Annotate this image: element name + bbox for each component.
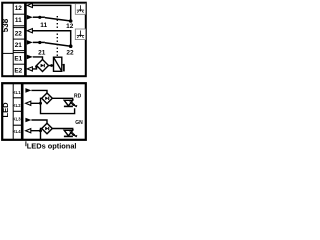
svg-text:12: 12 bbox=[66, 23, 74, 30]
svg-text:11: 11 bbox=[40, 22, 47, 29]
svg-text:22: 22 bbox=[66, 50, 74, 57]
svg-text:KL1: KL1 bbox=[13, 90, 22, 95]
svg-text:RD: RD bbox=[74, 93, 82, 99]
svg-text:21: 21 bbox=[15, 42, 23, 49]
svg-text:GN: GN bbox=[75, 120, 83, 126]
svg-text:KL3: KL3 bbox=[13, 116, 22, 121]
svg-text:22: 22 bbox=[15, 30, 23, 37]
svg-text:E1: E1 bbox=[14, 56, 22, 63]
svg-text:KL2: KL2 bbox=[13, 103, 22, 108]
svg-text:LEDs optional: LEDs optional bbox=[27, 141, 77, 150]
svg-text:LED: LED bbox=[1, 102, 10, 118]
svg-text:11: 11 bbox=[15, 17, 22, 24]
svg-text:538: 538 bbox=[1, 18, 10, 32]
svg-text:E2: E2 bbox=[14, 68, 22, 75]
svg-text:21: 21 bbox=[38, 49, 46, 56]
svg-text:12: 12 bbox=[15, 5, 23, 12]
svg-text:KL4: KL4 bbox=[13, 129, 22, 134]
